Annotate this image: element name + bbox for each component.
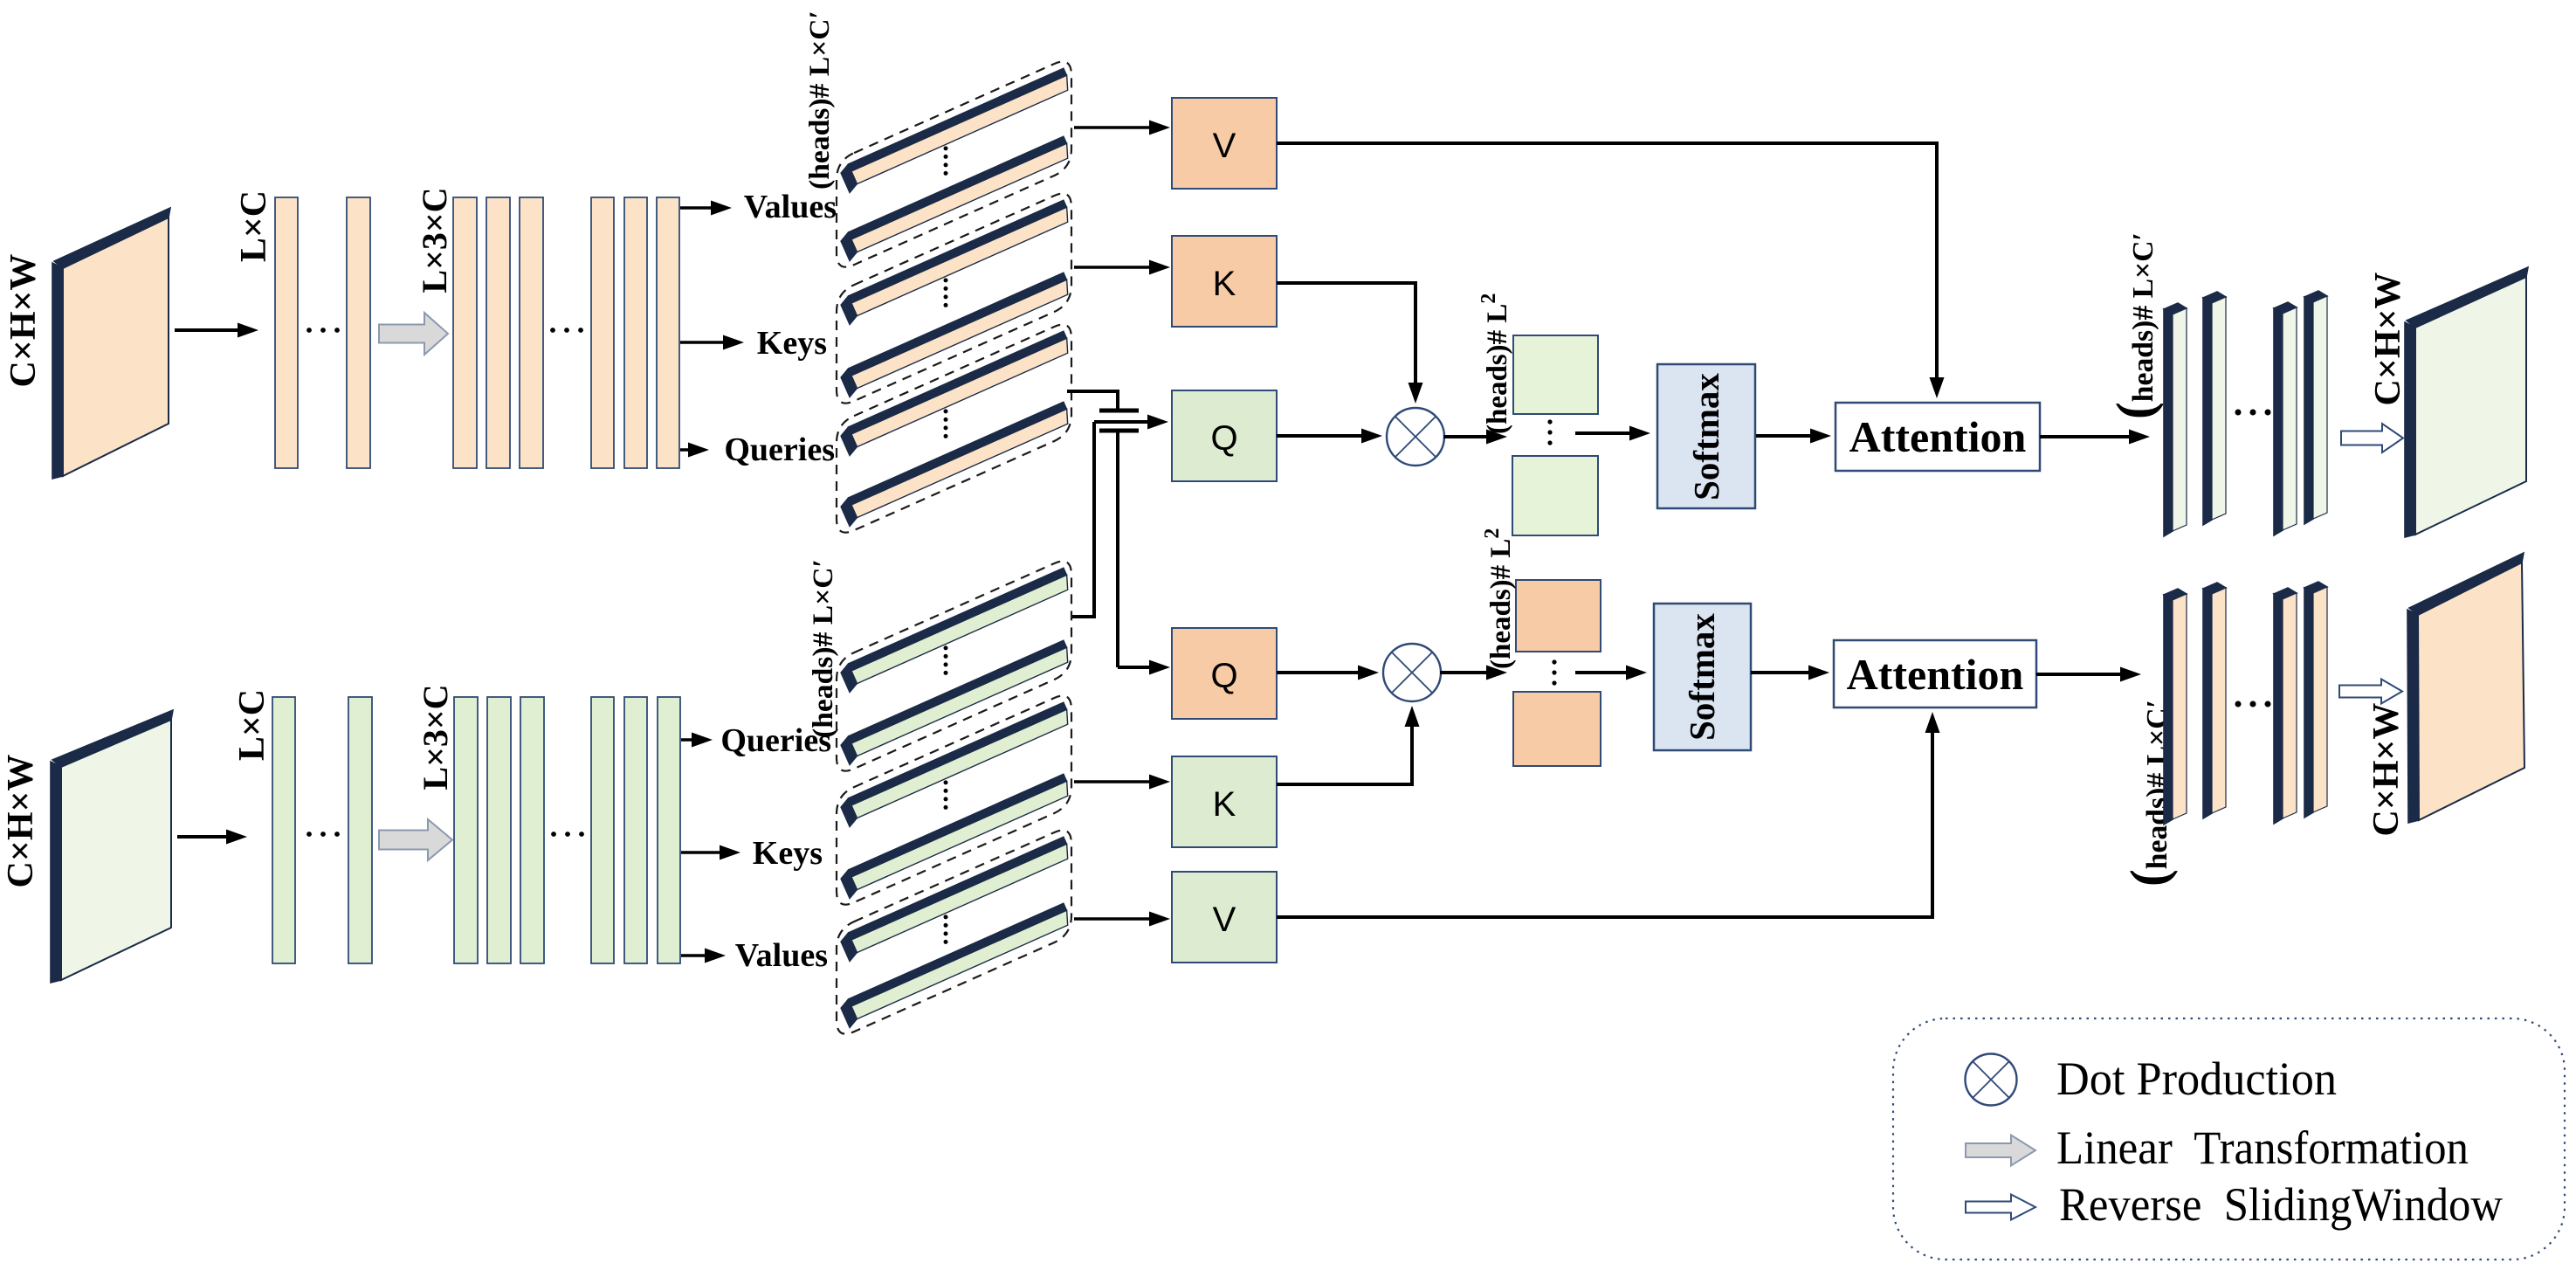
svg-text:L×C: L×C: [234, 190, 274, 262]
svg-text:Queries: Queries: [724, 431, 835, 468]
svg-text:Reverse SlidingWindow: Reverse SlidingWindow: [2059, 1178, 2503, 1231]
svg-text:V: V: [1213, 127, 1236, 165]
svg-text:C×H×W: C×H×W: [2368, 273, 2408, 406]
svg-text:Keys: Keys: [757, 325, 827, 362]
svg-text:C×H×W: C×H×W: [1, 755, 41, 888]
svg-text:Attention: Attention: [1849, 412, 2027, 461]
svg-text:(heads)# L2: (heads)# L2: [1477, 293, 1513, 434]
svg-text:Keys: Keys: [753, 835, 823, 872]
svg-text:K: K: [1213, 265, 1236, 303]
svg-text:C×H×W: C×H×W: [2366, 703, 2407, 837]
svg-text:Attention: Attention: [1847, 650, 2024, 699]
svg-text:Dot Production: Dot Production: [2056, 1053, 2337, 1105]
svg-text:K: K: [1213, 785, 1236, 824]
svg-text:Q: Q: [1210, 419, 1237, 458]
svg-text:Values: Values: [735, 937, 828, 974]
svg-text:Softmax: Softmax: [1682, 613, 1722, 741]
svg-text:C×H×W: C×H×W: [3, 254, 44, 388]
svg-text:Values: Values: [744, 189, 837, 225]
svg-text:Q: Q: [1210, 657, 1237, 695]
svg-text:Linear Transformation: Linear Transformation: [2056, 1122, 2469, 1174]
svg-text:L×C: L×C: [232, 689, 272, 761]
svg-text:(heads)# L×C′: (heads)# L×C′: [808, 559, 839, 738]
svg-text:(heads)# L2: (heads)# L2: [1481, 528, 1517, 669]
svg-text:V: V: [1213, 901, 1236, 939]
svg-text:L×3×C: L×3×C: [416, 684, 455, 790]
svg-text:(heads)# L×C′: (heads)# L×C′: [804, 10, 836, 190]
svg-text:Softmax: Softmax: [1686, 373, 1726, 500]
svg-text:L×3×C: L×3×C: [415, 187, 454, 293]
